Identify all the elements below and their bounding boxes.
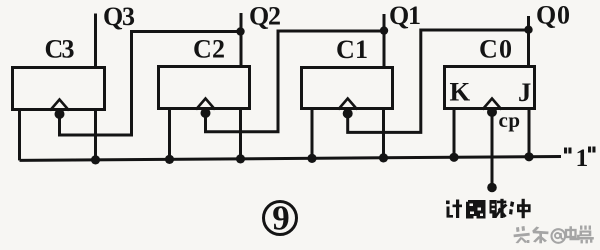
- clock triangle C2: [196, 99, 215, 110]
- junction Q1 feedback: [380, 26, 388, 34]
- svg-text:J: J: [518, 77, 531, 107]
- svg-text:9: 9: [272, 199, 290, 238]
- wire C3 J pin to bus: [94, 111, 97, 160]
- wire C1 K pin to bus: [311, 110, 314, 158]
- wire Q3 output: [94, 14, 97, 67]
- clock triangle C0: [483, 99, 502, 110]
- wire Q2 output: [240, 13, 243, 65]
- watermark 条: [532, 227, 549, 244]
- junction bus C0 K: [449, 153, 458, 162]
- watermark 电: [566, 226, 578, 239]
- flip-flop C3 box: [13, 68, 105, 110]
- svg-text:Q2: Q2: [249, 2, 281, 31]
- label 计 (count pulse text): [446, 200, 462, 219]
- watermark 巢: [578, 226, 594, 244]
- junction C1 clock: [343, 109, 353, 119]
- label 脉: [490, 199, 508, 218]
- junction C2 clock: [201, 108, 211, 118]
- svg-text:Q3: Q3: [103, 2, 135, 31]
- svg-text:1: 1: [576, 143, 589, 172]
- wire C0 K pin to bus: [453, 110, 456, 157]
- watermark 头: [514, 226, 530, 243]
- label 冲: [509, 199, 531, 218]
- svg-text:C1: C1: [336, 35, 368, 64]
- svg-text:Q1: Q1: [389, 1, 421, 30]
- wire logic-1 bus: [20, 157, 562, 161]
- wire C3 K pin to bus: [18, 111, 21, 160]
- junction bus C1 J: [379, 153, 388, 162]
- clock triangle C1: [338, 99, 357, 110]
- svg-text:K: K: [450, 77, 471, 107]
- watermark @: [552, 229, 566, 243]
- svg-text:C3: C3: [45, 35, 75, 64]
- junction C0 clock: [487, 107, 497, 117]
- svg-text:cp: cp: [499, 108, 521, 132]
- junction bus C0 J: [524, 152, 533, 161]
- wire Q0 to C1 clock: [348, 30, 529, 132]
- label logic 1: [564, 147, 596, 154]
- wire Q0 output: [527, 16, 530, 65]
- junction bus C3 J: [91, 155, 100, 164]
- wire Q2 to C3 clock: [60, 32, 241, 136]
- junction bus C2 K: [165, 155, 174, 164]
- wire count pulse to C0 clock: [491, 112, 494, 187]
- junction bus C1 K: [307, 154, 316, 163]
- flip-flop C0 box: [445, 67, 535, 109]
- figure number 9 circled: [264, 202, 297, 235]
- flip-flop C2 box: [159, 67, 250, 109]
- node count pulse terminal: [487, 183, 497, 193]
- wire C2 K pin to bus: [168, 110, 171, 159]
- junction bus C2 J: [236, 154, 245, 163]
- wire C1 J pin to bus: [382, 110, 385, 158]
- svg-text:Q0: Q0: [536, 1, 570, 30]
- label 数: [466, 200, 486, 219]
- junction Q2 feedback: [236, 27, 244, 35]
- wire Q1 to C2 clock: [206, 31, 385, 132]
- flip-flop C1 box: [302, 68, 393, 109]
- clock triangle C3: [50, 100, 69, 111]
- svg-text:C2: C2: [193, 35, 225, 64]
- svg-text:C0: C0: [479, 35, 512, 64]
- wire C0 J pin to bus: [528, 110, 531, 157]
- wire Q1 output: [383, 14, 386, 66]
- junction Q0 feedback: [524, 26, 532, 34]
- junction C3 clock: [55, 109, 65, 119]
- wire C2 J pin to bus: [239, 110, 242, 159]
